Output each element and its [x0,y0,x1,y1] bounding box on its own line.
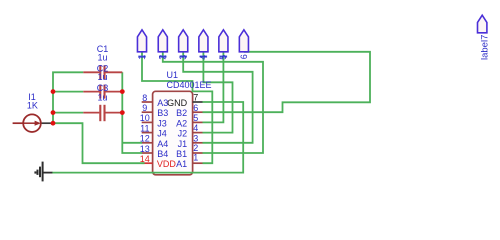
svg-text:CD4001EE: CD4001EE [167,80,212,90]
junction left rail / I1 [51,121,56,126]
pin 14 stub (VDD, red) [142,162,153,164]
svg-text:A1: A1 [176,159,187,169]
IC pin numbers left [140,93,150,164]
wire conn4 to pin4 [203,52,233,133]
wire GND: pin7 to ground symbol [52,102,243,173]
svg-text:7: 7 [193,92,198,102]
IC pin names left column [157,98,177,169]
wire conn5 to pin5 [203,52,224,122]
svg-text:14: 14 [140,154,150,164]
svg-text:4: 4 [198,55,208,60]
svg-text:13: 13 [140,144,150,154]
svg-text:B1: B1 [176,149,187,159]
connector label7 (pentagon, top right) [478,15,491,60]
svg-text:J1: J1 [178,139,188,149]
svg-text:label7: label7 [479,35,490,60]
junction right rail / C3 [120,110,125,115]
svg-text:6: 6 [239,54,249,59]
svg-text:B4: B4 [157,149,168,159]
wire net VDD: current source to caps left rail [52,52,370,173]
svg-text:1u: 1u [98,72,108,82]
svg-text:1: 1 [193,153,198,163]
wire cap2 left [53,91,83,93]
junction left rail / C3 [51,110,56,115]
IC U1 body [153,91,193,175]
svg-text:J2: J2 [178,129,188,139]
wire cap3 left [53,112,83,114]
svg-text:A4: A4 [157,139,168,149]
svg-text:J4: J4 [157,129,167,139]
pin 7 stub (GND, dark) [193,101,203,103]
capacitor C1 [83,65,122,79]
IC U1 right pin stubs [193,112,203,163]
IC U1 left pin stubs [142,102,153,153]
IC pin names right column [167,98,188,169]
svg-text:J3: J3 [157,118,167,128]
wire conn1 to pin1 [142,52,212,163]
connector pin 4 (pentagon) [198,30,208,60]
svg-text:4: 4 [193,123,198,133]
svg-text:1K: 1K [27,101,38,111]
svg-text:2: 2 [158,55,168,60]
connector pin 1 (pentagon) [137,30,147,60]
junction left rail / C2 [51,89,56,94]
svg-text:9: 9 [142,103,147,113]
svg-text:6: 6 [193,103,198,113]
svg-text:10: 10 [140,113,150,123]
svg-text:1u: 1u [98,53,108,63]
wire conn3 to pin3 [183,52,252,143]
wire left cap rail vertical [53,72,145,163]
svg-text:GND: GND [167,98,188,108]
wire right cap rail vertical [122,72,142,153]
connector pin 2 (pentagon) [158,30,168,60]
connector pin 6 (pentagon) [239,30,249,60]
svg-text:5: 5 [193,113,198,123]
wire pin12 to cap rail [122,142,142,144]
svg-text:VDD: VDD [157,159,177,169]
svg-text:8: 8 [142,93,147,103]
svg-text:U1: U1 [167,70,179,80]
ground symbol [35,162,52,182]
wire conn6 to pin6 [203,52,371,112]
svg-text:3: 3 [193,133,198,143]
wire conn2 to pin2 [163,52,263,153]
svg-text:5: 5 [218,55,228,60]
svg-text:A2: A2 [176,118,187,128]
svg-text:1u: 1u [98,92,108,102]
connector pin 3 (pentagon) [178,30,188,60]
svg-text:1: 1 [137,55,147,60]
capacitor C2 [83,85,122,99]
svg-text:11: 11 [140,123,149,133]
IC pin numbers right [193,92,198,162]
svg-text:B3: B3 [157,108,168,118]
svg-text:12: 12 [140,134,150,144]
svg-text:3: 3 [178,55,188,60]
capacitor C3 [83,105,122,121]
junction right rail / C2 [120,89,125,94]
svg-text:B2: B2 [176,108,187,118]
connector pin 5 (pentagon) [218,30,228,60]
current source I1 [13,114,53,132]
